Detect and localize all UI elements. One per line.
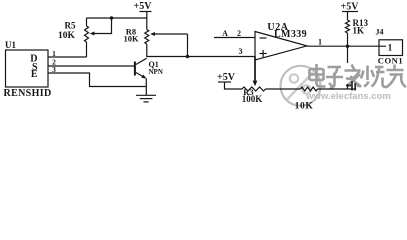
R5 wiper arrow — [90, 18, 112, 36]
wire +5V to R13 — [347, 12, 349, 21]
watermark text you (approx) — [386, 65, 406, 88]
+5V power symbol (top right) — [341, 2, 360, 13]
svg-text:RENSHID: RENSHID — [4, 88, 52, 99]
op-amp minus sign — [260, 37, 267, 39]
wire pin2 to Q1 base — [48, 65, 134, 67]
svg-text:+5V: +5V — [134, 1, 153, 12]
wire R13 bottom to output line — [347, 33, 349, 46]
wire R8 wiper down to +input node — [187, 34, 189, 57]
wire +5V rail lower segment to collector node — [146, 44, 148, 57]
wire emitter down to ground — [145, 79, 147, 96]
wire 10K to output node — [318, 84, 357, 89]
potentiometer R3 body — [242, 87, 266, 91]
Q1 emitter lead with arrow — [136, 73, 147, 79]
R8 wiper arrow — [150, 32, 187, 36]
op-amp plus sign — [260, 50, 267, 57]
+5V power symbol (bottom) — [217, 72, 236, 83]
junction dot R5 wiper tie — [110, 16, 113, 19]
resistor 10K body (bottom) — [301, 87, 318, 91]
junction dot output node — [346, 45, 349, 48]
watermark text shao (approx) — [361, 66, 387, 88]
watermark text fa (approx) — [345, 65, 362, 88]
svg-text:1K: 1K — [353, 26, 365, 36]
svg-text:CON1: CON1 — [378, 55, 404, 65]
wire comparator output to CON1 — [307, 45, 386, 47]
svg-text:10K: 10K — [295, 101, 314, 111]
resistor R5 body (potentiometer) — [86, 18, 88, 26]
wire R5 bottom to pin1 — [86, 42, 88, 57]
watermark text dian (approx) — [310, 64, 326, 87]
wire pin1 to R5 bottom — [48, 56, 87, 58]
svg-text:10K: 10K — [123, 34, 139, 44]
svg-text:2: 2 — [237, 29, 241, 38]
svg-text:NPN: NPN — [149, 68, 163, 76]
junction dot at +input node — [186, 55, 189, 58]
svg-text:A: A — [222, 29, 228, 38]
watermark dark marks near wire — [346, 81, 355, 91]
svg-text:+5V: +5V — [341, 2, 360, 13]
U1 box — [6, 50, 49, 87]
svg-text:3: 3 — [239, 47, 243, 56]
wire collector node to comparator + input — [147, 56, 255, 58]
Q1 collector lead — [136, 58, 147, 64]
svg-text:www.elecfans.com: www.elecfans.com — [305, 91, 391, 102]
svg-text:R5: R5 — [65, 21, 76, 31]
ground symbol — [136, 95, 156, 102]
svg-text:10K: 10K — [58, 31, 76, 41]
op-amp U2A triangle — [255, 32, 307, 61]
svg-text:1: 1 — [318, 37, 322, 46]
wire R3 to 10K resistor — [266, 88, 301, 90]
resistor R13 body — [346, 20, 350, 33]
resistor R8 body — [145, 30, 149, 45]
svg-text:LM339: LM339 — [274, 29, 307, 40]
wire +5V rail upper segment — [146, 12, 148, 30]
watermark logo circle — [281, 66, 321, 106]
transistor Q1 base bar — [134, 62, 136, 76]
svg-text:+5V: +5V — [217, 72, 236, 83]
wire pin3 to ground rail — [48, 73, 146, 87]
wire +5V down to bottom rail — [225, 82, 243, 89]
svg-text:1: 1 — [388, 43, 393, 53]
svg-text:J4: J4 — [376, 28, 384, 37]
svg-text:100K: 100K — [242, 94, 263, 104]
wire net A to comparator - input — [214, 37, 255, 39]
watermark text zi (approx) — [326, 67, 343, 88]
svg-text:U1: U1 — [5, 40, 16, 50]
svg-text:E: E — [31, 69, 38, 80]
wire R5 top to rail — [87, 17, 147, 19]
wire vertical upper part to output node — [347, 46, 349, 63]
+5V power symbol (top left) — [134, 1, 153, 12]
R3 wiper arrow from + input — [253, 57, 258, 87]
connector J4 box — [379, 40, 403, 56]
